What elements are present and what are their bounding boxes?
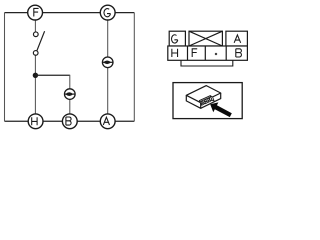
connector pin table cell A	[226, 31, 248, 46]
lamp L1 above B	[64, 89, 75, 100]
wire branch from junction to lamp above B	[35, 74, 69, 76]
terminal A	[100, 114, 115, 129]
connector lock tab below table	[181, 60, 233, 66]
connector socket detail	[199, 96, 214, 106]
switch S1	[33, 31, 44, 55]
node junction dot	[33, 73, 38, 78]
pin table divider F/dot	[204, 46, 206, 60]
wire lamp to terminal A	[107, 68, 109, 114]
pin label H	[172, 49, 178, 57]
terminal F	[28, 5, 43, 20]
pin label B	[236, 49, 242, 57]
wire outer loop horizontals	[5, 13, 135, 122]
arrow pointing at connector	[210, 102, 232, 117]
terminal H	[28, 114, 43, 129]
pin label F	[192, 49, 197, 57]
connector view frame	[173, 83, 242, 119]
connector keyway crossed box	[189, 31, 222, 46]
connector pin table bottom row box	[168, 46, 248, 60]
wire middle branch from F through switch to H	[34, 20, 36, 114]
terminal B	[62, 114, 77, 129]
terminal G	[100, 5, 115, 20]
connector pin table cell G	[169, 31, 185, 46]
connector body 3D	[186, 86, 220, 109]
pin label dot	[215, 53, 218, 56]
pin table divider H/F	[187, 46, 189, 60]
wire right branch G to lamp	[107, 20, 109, 57]
pin table divider dot/B	[225, 46, 227, 60]
lamp L2 on right branch	[102, 57, 113, 68]
wire outer loop verticals	[5, 13, 135, 122]
wire lamp above B to terminal B	[69, 100, 71, 114]
